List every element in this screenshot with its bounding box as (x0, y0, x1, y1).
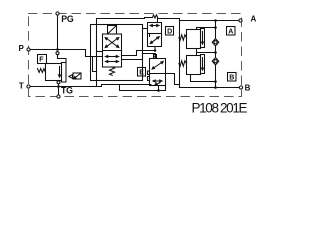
valve E body (150, 59, 166, 86)
wire pilot valve to valve E (122, 54, 156, 60)
valve D body (148, 23, 162, 47)
svg-text:T: T (19, 82, 24, 91)
wire spring anchor to valve D (157, 17, 159, 22)
relief valve lower internal arrow (202, 58, 204, 69)
node junction P-PG (56, 48, 59, 51)
svg-text:E: E (139, 70, 144, 77)
wire PG drop (57, 14, 59, 50)
wire shuttle column (215, 21, 217, 39)
valve D diagonal arrow (152, 38, 158, 43)
relief valve upper narrow section (201, 29, 205, 48)
svg-text:PG: PG (61, 14, 74, 24)
port A (239, 19, 242, 22)
svg-text:P: P (19, 44, 25, 53)
valve E left port stubs (148, 71, 150, 75)
pilot valve parallel arrows (107, 56, 118, 58)
wire reducing valve drain to TG (58, 81, 60, 97)
wire T line with step (29, 85, 152, 87)
node junction D feed (154, 49, 157, 52)
port T (27, 85, 30, 88)
valve D top arrow (151, 25, 158, 27)
relief valve upper internal arrow (202, 32, 204, 43)
label box A (227, 27, 236, 36)
manifold box outer top right (158, 18, 180, 20)
manifold box inner (91, 25, 143, 81)
node drain vent circle (57, 81, 60, 84)
pressure reducing valve internal arrow (59, 67, 61, 76)
svg-text:P108 201E: P108 201E (192, 100, 248, 115)
relief valve upper spring (179, 35, 187, 40)
drain vent triangle (69, 75, 73, 79)
enclosure dashed boundary (29, 14, 242, 97)
valve D spring (153, 15, 158, 18)
solenoid U1 (108, 26, 117, 35)
label box D (166, 27, 174, 36)
node junction T-TG (57, 85, 60, 88)
wire pilot valve to valve D (122, 47, 156, 56)
wire B line (180, 87, 242, 89)
relief valve upper body (187, 30, 201, 49)
wire valve D left stub (143, 28, 148, 30)
label box B (228, 73, 237, 82)
check valve lower diamond (212, 58, 219, 65)
svg-text:A: A (251, 14, 257, 23)
svg-text:B: B (245, 84, 251, 93)
node junctions on column (214, 19, 217, 22)
svg-text:F: F (39, 57, 44, 64)
relief valve lower spring (179, 61, 187, 66)
wire relief upper bottom / relief lower top (196, 49, 198, 56)
svg-text:B: B (229, 75, 234, 82)
node junction E feed (154, 55, 157, 58)
node junction E drain (157, 89, 160, 92)
svg-text:TG: TG (61, 85, 73, 95)
node pilot tap circle (56, 52, 59, 55)
valve E top port stub (154, 55, 157, 59)
pressure reducing valve spring (38, 69, 46, 73)
pilot valve crossed arrows (106, 38, 118, 47)
wire A line (180, 20, 241, 22)
wire pilot drain branch (93, 57, 97, 72)
manifold box outer right edge (179, 19, 181, 88)
wire lower return line (120, 85, 166, 91)
port P (27, 48, 30, 51)
wire relief upper top (197, 28, 216, 30)
pressure reducing valve body (46, 64, 62, 81)
port labels (19, 14, 257, 95)
filter box F (38, 55, 47, 64)
wire P line (29, 50, 103, 57)
svg-text:D: D (167, 29, 172, 36)
port TG (57, 95, 60, 98)
port B (239, 86, 242, 89)
port PG (56, 12, 59, 15)
drain orifice box with arrow (73, 73, 81, 79)
svg-text:A: A (228, 29, 233, 36)
wire valve E bottom port (158, 86, 160, 91)
pressure reducing valve narrow section (62, 63, 67, 83)
wire relief lower bottom (191, 75, 216, 82)
valve E diagonal arrow (153, 62, 162, 68)
wire pilot supply to reducing valve (58, 55, 67, 63)
manifold box outer left and top (97, 18, 153, 87)
label box E (138, 68, 146, 77)
valve E bottom arrows (154, 80, 161, 82)
wire valve E right port to B (166, 74, 180, 85)
pilot valve body (103, 34, 122, 67)
valve D internal port tick (149, 34, 151, 37)
relief valve lower narrow section (201, 55, 205, 74)
pilot valve spring bottom (110, 67, 115, 75)
relief valve lower body (187, 56, 201, 75)
check valve upper diamond (212, 39, 219, 46)
wire box edge to pilot valve port (97, 51, 103, 53)
